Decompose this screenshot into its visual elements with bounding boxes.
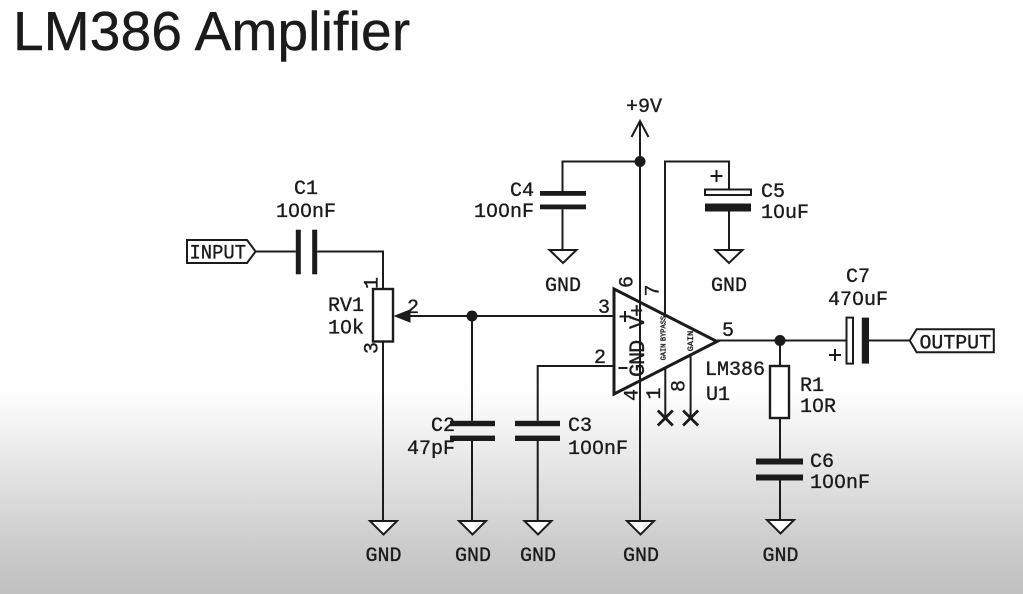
RV1 wiper arrow (pin 2)	[394, 309, 411, 323]
svg-text:RV1: RV1	[328, 295, 364, 318]
svg-text:GND: GND	[545, 275, 581, 298]
svg-text:GND: GND	[623, 545, 659, 568]
wire C2 to GND	[471, 441, 473, 521]
wire op-amp pin 2 to C3	[538, 366, 614, 421]
svg-text:100nF: 100nF	[568, 438, 628, 461]
svg-text:1: 1	[362, 277, 385, 289]
op-amp minus input mark	[619, 367, 628, 369]
svg-text:GAIN: GAIN	[686, 331, 696, 351]
power symbol +9V	[626, 96, 662, 162]
svg-text:C1: C1	[294, 178, 318, 201]
svg-text:10uF: 10uF	[761, 202, 809, 225]
ground symbol (C5)	[711, 250, 747, 298]
svg-text:47pF: 47pF	[407, 438, 455, 461]
svg-text:GAIN: GAIN	[661, 344, 669, 361]
svg-text:8: 8	[669, 380, 692, 392]
capacitor C5 (polarized)	[705, 190, 751, 212]
svg-text:U1: U1	[706, 384, 730, 407]
capacitor C1	[296, 230, 317, 275]
wire junction down to C2	[471, 316, 473, 421]
svg-text:GND: GND	[365, 545, 401, 568]
zero glyph counter dots (match plain-zero font)	[292, 208, 860, 483]
svg-text:3: 3	[598, 297, 610, 320]
resistor R1	[770, 366, 789, 418]
svg-text:LM386: LM386	[705, 359, 765, 382]
junction node at C2 tap	[467, 311, 478, 322]
wire +9V rail to pin 7 riser and C5	[665, 162, 729, 318]
svg-text:C7: C7	[846, 266, 870, 289]
svg-text:C3: C3	[568, 415, 592, 438]
wire C6 to GND	[779, 481, 781, 521]
wire INPUT to C1	[256, 251, 296, 253]
wire RV1 pin 3 to GND	[382, 342, 384, 522]
svg-text:C5: C5	[761, 181, 785, 204]
op-amp pin 4 line to GND	[639, 341, 641, 521]
capacitor C4	[540, 191, 586, 209]
wire C5 to GND	[728, 212, 730, 251]
potentiometer RV1 body	[373, 289, 393, 342]
svg-text:4: 4	[622, 389, 645, 401]
plus mark (C5)	[711, 170, 723, 182]
svg-text:GND: GND	[520, 545, 556, 568]
svg-text:GND: GND	[711, 275, 747, 298]
no-connect X (pin 8)	[683, 411, 698, 426]
svg-text:C4: C4	[510, 180, 534, 203]
capacitor C3	[515, 421, 560, 441]
ground symbol (op-amp pin 4)	[623, 521, 659, 568]
wire junction to R1	[779, 341, 781, 367]
svg-text:100nF: 100nF	[276, 201, 336, 224]
no-connect X (pin 1)	[658, 411, 673, 426]
ground symbol (RV1)	[365, 521, 401, 568]
svg-text:6: 6	[617, 276, 640, 288]
ground symbol (C2)	[455, 521, 491, 568]
svg-text:470uF: 470uF	[828, 289, 888, 312]
svg-text:BYPASS: BYPASS	[661, 316, 669, 341]
svg-text:100nF: 100nF	[810, 472, 870, 495]
OUTPUT port tag	[910, 329, 994, 355]
capacitor C6	[756, 459, 803, 481]
plus mark (C7)	[829, 349, 841, 361]
svg-text:C2: C2	[431, 415, 455, 438]
junction node at +9V rail	[635, 156, 646, 167]
ground symbol (C4)	[545, 250, 581, 298]
svg-text:C6: C6	[810, 451, 834, 474]
svg-text:2: 2	[594, 347, 606, 370]
svg-text:R1: R1	[800, 375, 824, 398]
INPUT port tag	[187, 240, 256, 266]
op-amp pin 6 line	[639, 162, 641, 342]
svg-text:GND: GND	[762, 545, 798, 568]
svg-text:+9V: +9V	[626, 96, 662, 119]
wire C1 to RV1 pin 1	[317, 252, 383, 290]
svg-text:1: 1	[644, 387, 667, 399]
title	[13, 0, 410, 63]
svg-text:10k: 10k	[328, 318, 364, 341]
svg-text:GND V+: GND V+	[626, 305, 651, 377]
ground symbol (C6)	[762, 520, 798, 568]
wire C4 to +9V junction	[563, 162, 641, 192]
wire RV1 wiper to op-amp pin 3	[408, 315, 614, 317]
capacitor C7 (polarized)	[847, 318, 870, 364]
ground symbol (C3)	[520, 521, 556, 568]
svg-text:OUTPUT: OUTPUT	[920, 333, 992, 356]
svg-text:10R: 10R	[800, 396, 836, 419]
svg-text:100nF: 100nF	[474, 201, 534, 224]
svg-text:7: 7	[643, 284, 666, 296]
svg-text:GND: GND	[455, 545, 491, 568]
wire R1 to C6	[779, 418, 781, 459]
capacitor C2	[450, 421, 495, 441]
op-amp plus input mark	[620, 311, 631, 322]
op-amp pin 8 line	[690, 355, 692, 418]
junction node at R1 tap	[775, 335, 786, 346]
wire op-amp pin 5 to C7	[717, 340, 846, 342]
svg-text:3: 3	[362, 342, 385, 354]
wire C7 to OUTPUT	[869, 340, 910, 342]
svg-text:INPUT: INPUT	[190, 243, 247, 266]
wire C4 to GND	[562, 209, 564, 250]
wire C3 to GND	[537, 441, 539, 521]
op-amp U1 triangle	[614, 289, 717, 394]
op-amp pin 1 line	[664, 368, 666, 418]
